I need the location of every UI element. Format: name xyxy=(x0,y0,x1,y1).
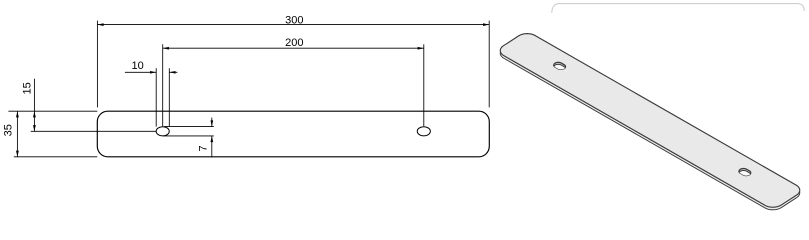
dim 300 extension line right xyxy=(488,21,490,108)
dim 300 extension line left xyxy=(96,21,98,108)
dim 200 extension line left xyxy=(162,44,164,126)
3D hole right (slot) xyxy=(739,169,751,176)
svg-text:300: 300 xyxy=(285,14,303,26)
3D isometric view: plate bottom face xyxy=(500,36,799,210)
right slot hole xyxy=(417,127,430,136)
svg-text:200: 200 xyxy=(285,37,303,49)
bottom edge extension line (left) xyxy=(14,156,98,158)
dim 200 line xyxy=(163,47,424,49)
dim 15 line xyxy=(33,79,35,132)
dim 10 leader lines xyxy=(125,71,156,73)
dim 300 line xyxy=(97,24,489,26)
svg-text:7: 7 xyxy=(198,145,210,151)
top edge extension line (left) xyxy=(8,110,97,112)
plate outline (front view) xyxy=(97,111,489,157)
left slot hole xyxy=(156,127,169,136)
dim 200 extension line right xyxy=(423,44,425,126)
3D hole left (slot) xyxy=(554,62,566,69)
svg-text:15: 15 xyxy=(22,82,34,94)
3D isometric view: plate top face xyxy=(500,34,799,208)
dim 35 line xyxy=(16,111,18,157)
faint viewport border (top) xyxy=(552,4,805,13)
dim 7 leader lines xyxy=(211,118,213,127)
svg-text:35: 35 xyxy=(3,124,15,136)
svg-text:10: 10 xyxy=(131,60,143,72)
dim 10 extension lines xyxy=(155,68,157,126)
hole centreline extension xyxy=(31,130,157,132)
dim 7 extension lines xyxy=(164,126,214,128)
